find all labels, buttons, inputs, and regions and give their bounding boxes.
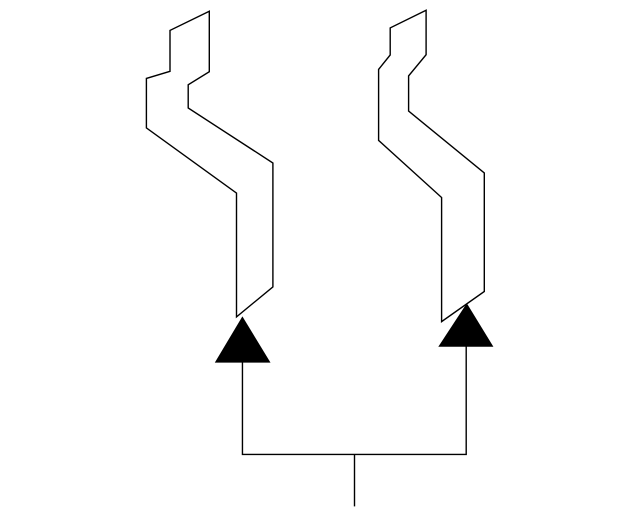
wire: bottom stem bbox=[354, 454, 356, 506]
right zigzag arrow shaft outline bbox=[379, 10, 485, 321]
wire: left tail, horizontal bus, right tail bbox=[242, 346, 466, 454]
left zigzag arrow shaft outline bbox=[146, 11, 273, 317]
right arrowhead bbox=[438, 303, 493, 347]
left arrowhead bbox=[215, 316, 271, 362]
